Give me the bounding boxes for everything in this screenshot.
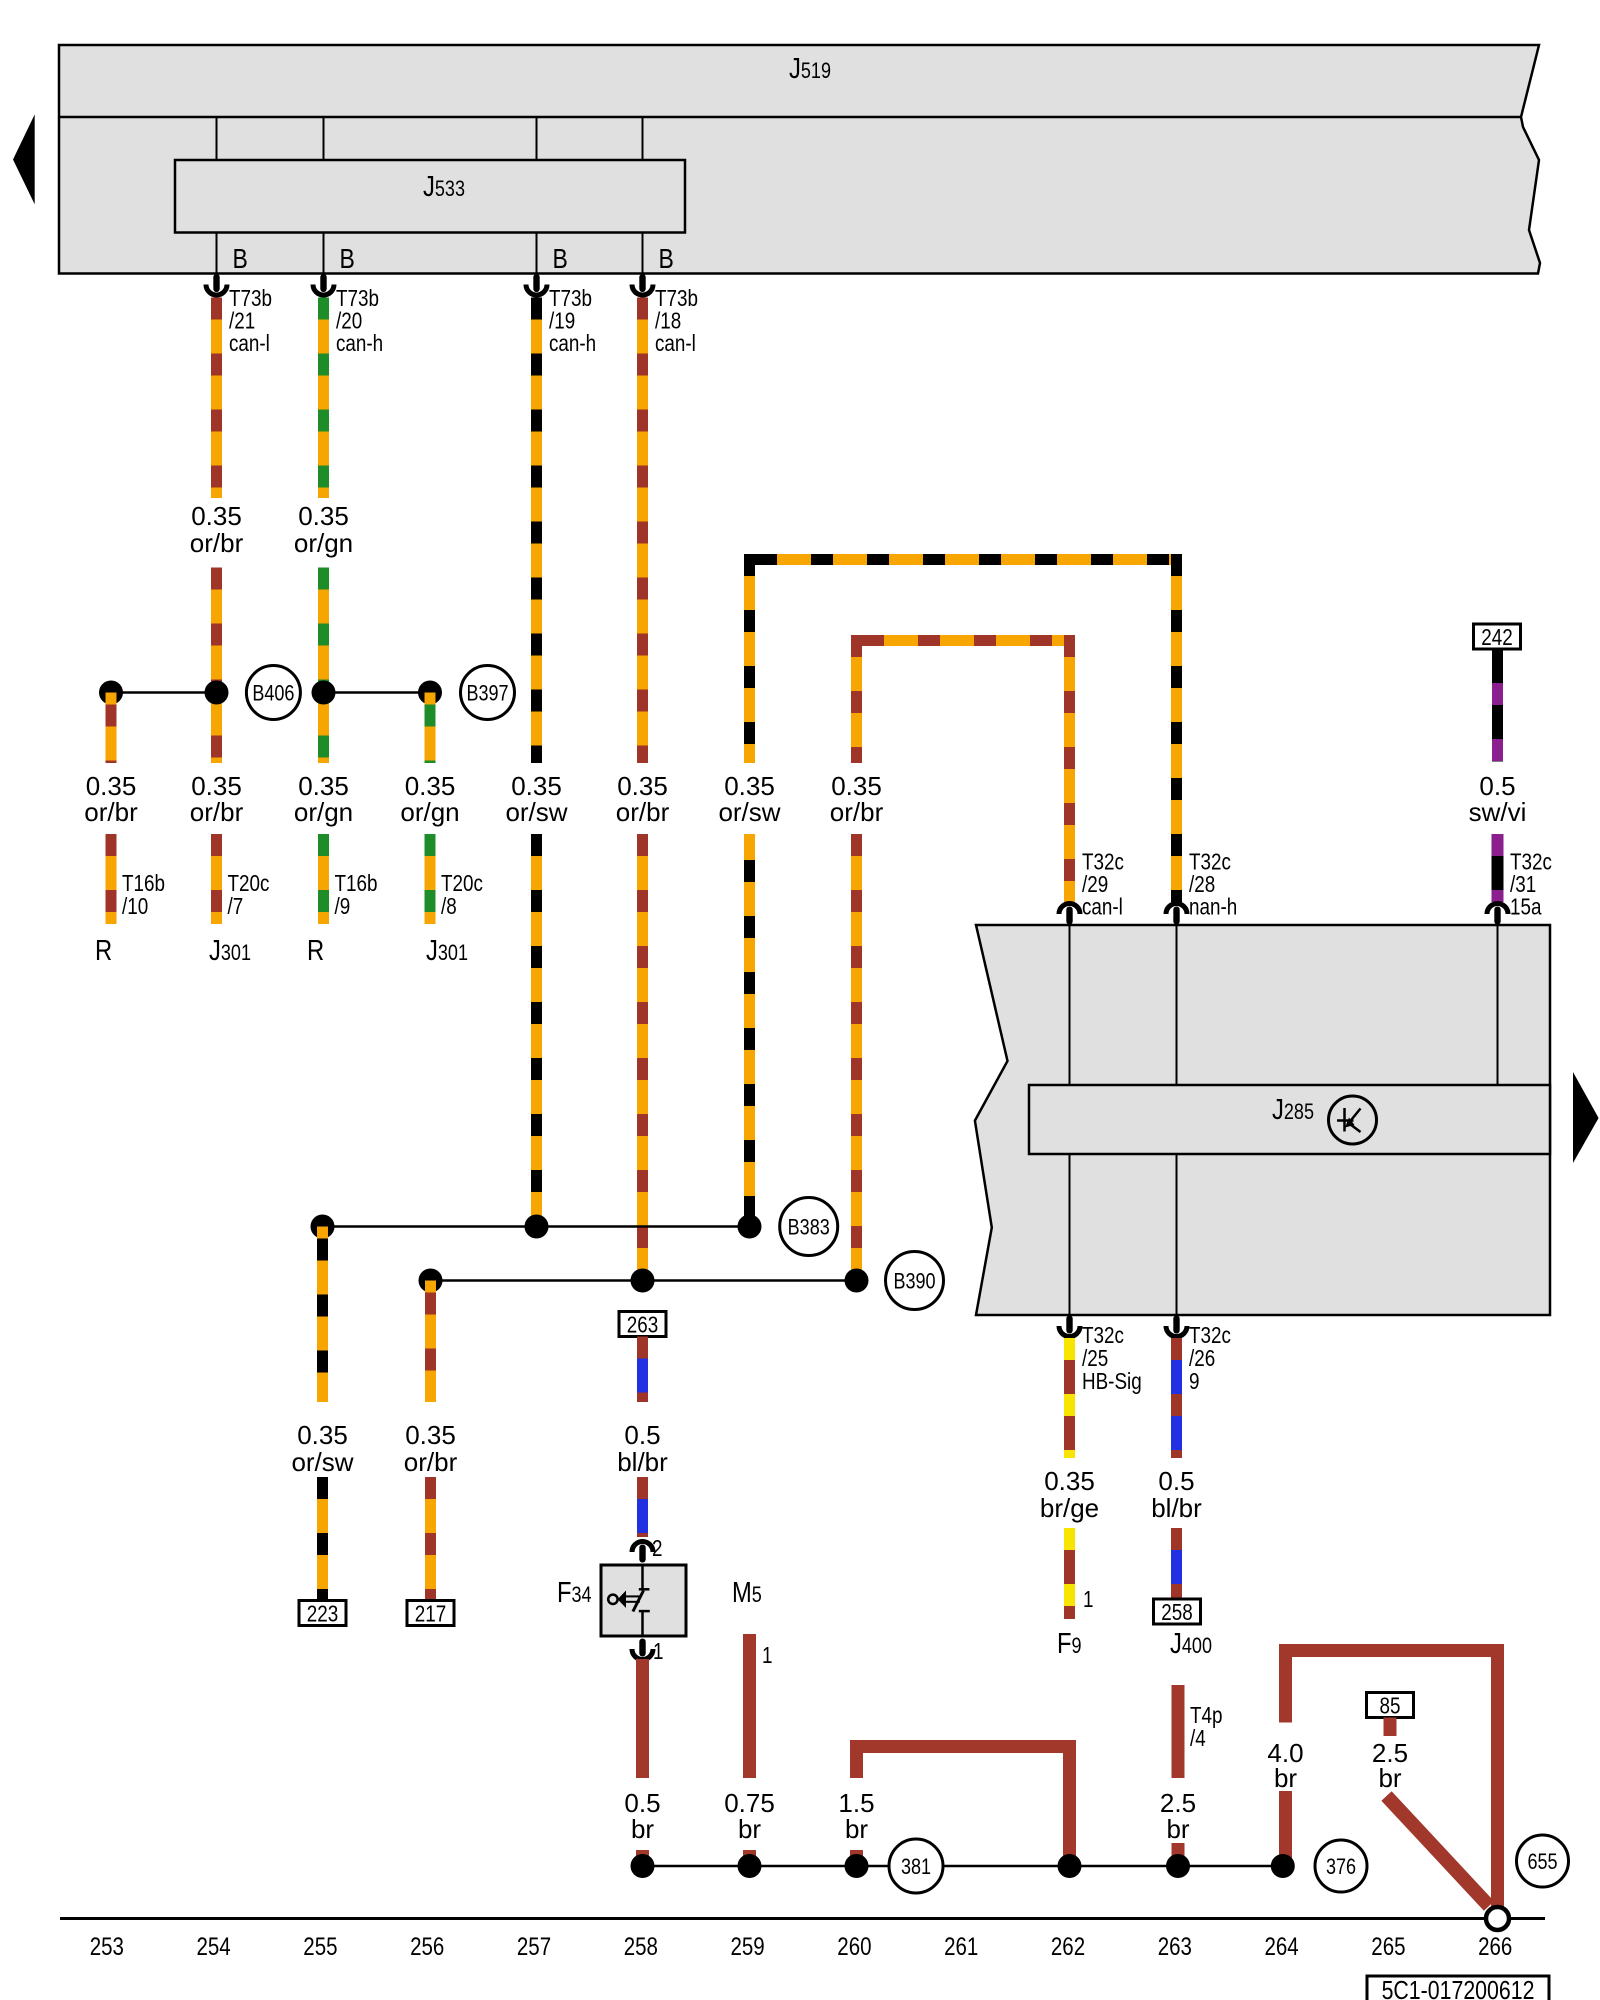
label 0.5 bl/br col263 (1151, 1466, 1202, 1523)
wire or/gn col255 seg3 (318, 834, 329, 924)
svg-text:/31: /31 (1510, 872, 1536, 897)
connector T32c/25 at J285 bottom (1059, 1316, 1080, 1337)
svg-text:1: 1 (1083, 1587, 1093, 1612)
wire or/gn col255 seg2 (318, 568, 329, 764)
svg-text:15a: 15a (1510, 895, 1542, 920)
svg-text:or/br: or/br (830, 797, 884, 827)
svg-text:263: 263 (627, 1313, 658, 1338)
node dot col253 (99, 681, 123, 705)
svg-text:or/br: or/br (84, 797, 138, 827)
wire br 4.0 bend (1279, 1644, 1504, 1908)
svg-text:242: 242 (1481, 625, 1512, 650)
svg-text:br: br (845, 1814, 868, 1844)
svg-text:223: 223 (307, 1602, 338, 1627)
connection circle B397 (461, 666, 515, 720)
terminal box 263 (619, 1312, 666, 1338)
wire or/br col258 seg1 (637, 298, 648, 764)
terminal box 217 (407, 1601, 454, 1627)
ground circle 381 (889, 1839, 943, 1893)
wire or/br stub below B390 (425, 1281, 436, 1403)
wire or/gn col256 seg2 (425, 834, 436, 924)
ground circle 655 (1517, 1835, 1569, 1887)
wire or/sw bend left leg lower (744, 834, 755, 1227)
svg-text:or/sw: or/sw (718, 797, 780, 827)
svg-text:T73b: T73b (549, 286, 592, 311)
svg-text:0.5: 0.5 (1158, 1466, 1194, 1496)
wire or/gn col255 seg1 (318, 298, 329, 499)
wire or/gn stub col256 (425, 693, 436, 764)
svg-text:or/br: or/br (404, 1447, 458, 1477)
svg-text:0.35: 0.35 (1044, 1466, 1095, 1496)
wire bl/br col263 seg1 (1171, 1338, 1182, 1458)
wire br from F34 pin1 (636, 1659, 649, 1778)
connector T73b/21 at J519 (206, 274, 227, 295)
svg-text:T16b: T16b (335, 871, 378, 896)
svg-text:br/ge: br/ge (1040, 1493, 1099, 1523)
F34 switch symbol (608, 1565, 650, 1636)
label J533 (423, 170, 465, 203)
wire bl/br col258 seg2 (637, 1477, 648, 1537)
svg-text:or/gn: or/gn (294, 797, 353, 827)
node dot B383 mid (525, 1215, 549, 1239)
wire inside J285 top col263 (1176, 925, 1178, 1085)
wire br 4.0 left leg lower (1279, 1791, 1292, 1866)
svg-text:655: 655 (1527, 1850, 1557, 1874)
svg-text:br: br (1378, 1763, 1401, 1793)
terminal label T32c/26 9 (1189, 1323, 1231, 1394)
pin label B at x=323.5 (340, 244, 355, 275)
svg-text:/21: /21 (229, 309, 255, 334)
wire inside J519 to J533 pin 2 (323, 117, 325, 274)
wire sw/vi seg1 (1492, 649, 1503, 762)
svg-text:T73b: T73b (229, 286, 272, 311)
ground point 266 circle (1486, 1907, 1509, 1930)
component label J301 (2) (426, 934, 468, 967)
wire or/br col254 seg1 (211, 298, 222, 499)
svg-text:T20c: T20c (441, 871, 483, 896)
wire bl/br col263 seg2 (1171, 1528, 1182, 1599)
svg-text:/8: /8 (441, 894, 457, 919)
pin number 2 at F34 (652, 1536, 662, 1561)
left continuation arrow (13, 114, 35, 204)
svg-text:/9: /9 (335, 894, 351, 919)
terminal label T20c/8 (441, 871, 483, 919)
svg-text:T73b: T73b (336, 286, 379, 311)
terminal box 258 (1154, 1599, 1201, 1625)
current track numbers row (90, 1932, 1513, 1960)
terminal box 85 (1367, 1693, 1414, 1719)
ground node dot col260 (845, 1854, 869, 1878)
svg-text:T32c: T32c (1189, 1323, 1231, 1348)
component label F9 (1057, 1627, 1082, 1660)
svg-text:/28: /28 (1189, 872, 1215, 897)
wire br/ge col262 seg1 (1064, 1338, 1075, 1458)
node dot B383 right (738, 1215, 762, 1239)
svg-text:can-h: can-h (549, 331, 596, 356)
svg-text:1: 1 (653, 1639, 663, 1664)
svg-text:B: B (233, 244, 248, 275)
gateway J533 box (175, 160, 685, 233)
connector T32c/31 at J285 top (1487, 904, 1508, 925)
terminal label T32c/31 15a (1510, 850, 1552, 920)
control unit J285 band (instrument cluster) (975, 925, 1550, 1315)
wire inside J519 to J533 pin 1 (216, 117, 218, 274)
svg-text:T32c: T32c (1189, 850, 1231, 875)
wire br from M5 (743, 1634, 756, 1778)
svg-text:261: 261 (944, 1932, 978, 1960)
connector T32c/28 at J285 top (1166, 904, 1187, 925)
svg-text:265: 265 (1371, 1932, 1405, 1960)
svg-text:T16b: T16b (122, 871, 165, 896)
svg-text:can-l: can-l (1082, 895, 1123, 920)
svg-text:can-l: can-l (229, 331, 270, 356)
terminal label T73b/18 can-l (655, 286, 698, 356)
ground bus line (643, 1865, 1283, 1868)
wire or/br col258 seg2 (637, 834, 648, 1281)
wire sw/vi seg2 (1492, 834, 1504, 902)
svg-text:/18: /18 (655, 309, 681, 334)
terminal label T32c/25 HB-Sig (1082, 1323, 1142, 1394)
wire br stub below 85 (1384, 1718, 1397, 1737)
svg-text:T20c: T20c (228, 871, 270, 896)
label 2.5 br col263 (1160, 1788, 1196, 1844)
label 0.35 or/sw col259 (718, 771, 780, 827)
label 4.0 br (1267, 1738, 1303, 1793)
svg-text:217: 217 (415, 1602, 446, 1627)
wire br F34 stub to ground (636, 1850, 649, 1866)
label 2.5 br col265 (1372, 1738, 1408, 1793)
svg-text:259: 259 (730, 1932, 764, 1960)
ground node dot col263 (1166, 1854, 1190, 1878)
svg-text:264: 264 (1264, 1932, 1298, 1960)
label 0.35 or/br col253 (84, 771, 138, 827)
svg-text:B406: B406 (252, 682, 294, 706)
svg-text:381: 381 (901, 1855, 931, 1879)
wire or/sw stub below B383 (317, 1227, 328, 1403)
terminal label T4p/4 (1190, 1703, 1222, 1751)
wire or/br col254 seg3 (211, 834, 222, 924)
junction line B406 (111, 691, 217, 694)
label 0.35 or/br col260 (830, 771, 884, 827)
terminal label T32c/28 can-h (1189, 850, 1237, 920)
label 0.5 br (624, 1788, 660, 1844)
svg-text:or/sw: or/sw (291, 1447, 353, 1477)
svg-text:br: br (738, 1814, 761, 1844)
svg-text:254: 254 (196, 1932, 230, 1960)
pin label B at x=536.5 (553, 244, 568, 275)
pin number 1 at F34 (653, 1639, 663, 1664)
svg-text:1: 1 (762, 1643, 772, 1668)
svg-text:0.5: 0.5 (624, 1420, 660, 1450)
terminal label T73b/19 can-h (549, 286, 596, 356)
svg-text:T32c: T32c (1082, 1323, 1124, 1348)
svg-text:or/br: or/br (190, 797, 244, 827)
svg-text:B: B (659, 244, 674, 275)
wire br 1.5 bend (850, 1740, 1076, 1866)
label 0.35 or/br lower (404, 1420, 458, 1477)
wire inside J285 top col262 (1069, 925, 1071, 1085)
label 0.35 or/gn col255 top (294, 501, 353, 558)
svg-text:bl/br: bl/br (617, 1447, 668, 1477)
junction line B397 (324, 691, 431, 694)
component label J301 (1) (209, 934, 251, 967)
component label J400 (1170, 1627, 1212, 1660)
node dot col255 (312, 681, 336, 705)
label 0.35 or/br col254 (190, 771, 244, 827)
wire bl/br col258 seg1 (637, 1337, 648, 1403)
svg-text:or/gn: or/gn (294, 528, 353, 558)
label 0.35 or/sw lower (291, 1420, 353, 1477)
svg-text:253: 253 (90, 1932, 124, 1960)
svg-text:B390: B390 (893, 1270, 935, 1294)
node dot B390 right (845, 1269, 869, 1293)
ground circle 376 (1315, 1840, 1367, 1892)
svg-text:or/sw: or/sw (505, 797, 567, 827)
label 0.35 or/br col258 (616, 771, 670, 827)
svg-text:/25: /25 (1082, 1346, 1108, 1371)
wire or/sw bend left leg upper (744, 554, 755, 763)
wire or/br stub col253 (106, 693, 117, 764)
svg-text:R: R (307, 934, 324, 967)
terminal label T16b/10 (122, 871, 165, 919)
svg-text:0.35: 0.35 (191, 501, 242, 531)
component label M5 (732, 1576, 762, 1609)
ground node dot col264 (1271, 1854, 1295, 1878)
wire or/br bend left leg upper (851, 635, 862, 763)
svg-text:255: 255 (303, 1932, 337, 1960)
wire inside J519 to J533 pin 4 (642, 117, 644, 274)
terminal label T73b/20 can-h (336, 286, 383, 356)
label J519 (789, 52, 831, 85)
wire inside J285 bottom col263 (1176, 1154, 1178, 1315)
svg-text:260: 260 (837, 1932, 871, 1960)
control unit J519 band (onboard supply control unit) (59, 45, 1540, 274)
svg-text:/4: /4 (1190, 1726, 1206, 1751)
brake light switch F34 box (601, 1565, 686, 1636)
svg-text:B397: B397 (466, 682, 508, 706)
connection circle B383 (780, 1198, 838, 1256)
label 0.35 or/gn col256 (400, 771, 459, 827)
wire or/br bend left leg lower (851, 834, 862, 1281)
svg-text:257: 257 (517, 1932, 551, 1960)
label 0.5 sw/vi (1469, 771, 1527, 827)
wire inside J285 bottom col262 (1069, 1154, 1071, 1315)
wire br M5 stub to ground (743, 1850, 756, 1866)
wire br T4p/4 (1172, 1685, 1185, 1778)
svg-text:br: br (1166, 1814, 1189, 1844)
connector T73b/19 at J519 (526, 274, 547, 295)
node dot col254 (205, 681, 229, 705)
label J285 (1272, 1093, 1314, 1126)
svg-text:B383: B383 (788, 1216, 830, 1240)
terminal box 223 (299, 1601, 346, 1627)
ground node dot col258 (631, 1854, 655, 1878)
connector T73b/20 at J519 (313, 274, 334, 295)
svg-text:can-h: can-h (336, 331, 383, 356)
wire or/br col253 seg2 (106, 834, 117, 924)
svg-text:br: br (631, 1814, 654, 1844)
svg-text:br: br (1274, 1763, 1297, 1793)
svg-text:T4p: T4p (1190, 1703, 1222, 1728)
node dot B390 mid (631, 1269, 655, 1293)
connector T32c/29 at J285 top (1059, 904, 1080, 925)
label 0.5 bl/br col258 (617, 1420, 668, 1477)
svg-text:HB-Sig: HB-Sig (1082, 1369, 1142, 1394)
svg-text:or/gn: or/gn (400, 797, 459, 827)
svg-text:/26: /26 (1189, 1346, 1215, 1371)
svg-text:B: B (553, 244, 568, 275)
node dot B390 left (419, 1269, 443, 1293)
wire br T4p stub to ground (1172, 1843, 1185, 1866)
pin label B at x=642.5 (659, 244, 674, 275)
wire br diagonal to ground point (1387, 1796, 1490, 1906)
svg-text:bl/br: bl/br (1151, 1493, 1202, 1523)
svg-text:266: 266 (1478, 1932, 1512, 1960)
connection circle B406 (246, 666, 300, 720)
connector T32c/26 at J285 bottom (1166, 1316, 1187, 1337)
component label R (2) (307, 934, 324, 967)
svg-text:258: 258 (624, 1932, 658, 1960)
svg-text:/10: /10 (122, 894, 148, 919)
wire br 1.5 stub to ground (850, 1850, 863, 1866)
label 0.35 br/ge (1040, 1466, 1099, 1523)
svg-text:T73b: T73b (655, 286, 698, 311)
svg-text:or/br: or/br (616, 797, 670, 827)
junction line B383 (323, 1225, 751, 1228)
svg-text:nan-h: nan-h (1189, 895, 1237, 920)
svg-text:or/br: or/br (190, 528, 244, 558)
label 0.35 or/sw col257 (505, 771, 567, 827)
svg-text:B: B (340, 244, 355, 275)
pin number 1 at F9 (1083, 1587, 1093, 1612)
right continuation arrow (1573, 1072, 1599, 1163)
wire inside J285 top col266 (1497, 925, 1499, 1085)
svg-text:/7: /7 (228, 894, 244, 919)
svg-text:sw/vi: sw/vi (1469, 797, 1527, 827)
junction line B390 (431, 1279, 857, 1282)
node dot B383 left (311, 1215, 335, 1239)
svg-text:9: 9 (1189, 1369, 1199, 1394)
wire or/sw stub seg2 (317, 1477, 328, 1600)
svg-text:/29: /29 (1082, 872, 1108, 897)
svg-text:/20: /20 (336, 309, 362, 334)
pin number 1 at M5 (762, 1643, 772, 1668)
svg-text:258: 258 (1161, 1600, 1192, 1625)
terminal label T16b/9 (335, 871, 378, 919)
terminal label T20c/7 (228, 871, 270, 919)
pin label B at x=216.5 (233, 244, 248, 275)
svg-text:0.35: 0.35 (297, 1420, 348, 1450)
label F34 (557, 1576, 592, 1609)
svg-text:376: 376 (1326, 1855, 1356, 1879)
svg-text:0.35: 0.35 (298, 501, 349, 531)
svg-text:2: 2 (652, 1536, 662, 1561)
terminal label T73b/21 can-l (229, 286, 272, 356)
connection circle B390 (886, 1252, 944, 1310)
svg-text:256: 256 (410, 1932, 444, 1960)
wire or/sw bend right leg (1171, 554, 1182, 902)
svg-text:263: 263 (1158, 1932, 1192, 1960)
terminal box 242 (1474, 624, 1521, 650)
svg-text:R: R (95, 934, 112, 967)
ground node dot col262 (1058, 1854, 1082, 1878)
wire or/sw col257 seg1 (531, 298, 542, 764)
connector T73b/18 at J519 (632, 274, 653, 295)
ground node dot col259 (738, 1854, 762, 1878)
wire or/sw col257 seg2 (531, 834, 542, 1227)
wire inside J519 to J533 pin 3 (536, 117, 538, 274)
component label R (radio) (95, 934, 112, 967)
svg-text:262: 262 (1051, 1932, 1085, 1960)
node dot col256 (418, 681, 442, 705)
svg-text:0.35: 0.35 (405, 1420, 456, 1450)
wire br/ge col262 seg2 (1064, 1528, 1075, 1619)
svg-text:T32c: T32c (1082, 850, 1124, 875)
svg-text:T32c: T32c (1510, 850, 1552, 875)
svg-text:can-l: can-l (655, 331, 696, 356)
bottom reference line (60, 1917, 1545, 1920)
svg-text:5C1-017200612: 5C1-017200612 (1382, 1976, 1535, 2000)
wire or/br bend top bar (862, 635, 1064, 646)
instrument cluster symbol (1329, 1096, 1377, 1144)
J285 inner box (1029, 1085, 1550, 1154)
wire or/br col254 seg2 (211, 568, 222, 764)
label 1.5 br (838, 1788, 874, 1844)
label 0.35 or/br col254 top (190, 501, 244, 558)
wire or/br stub seg2 (425, 1477, 436, 1600)
connector pin 1 at F34 (632, 1639, 653, 1660)
label 0.75 br (724, 1788, 775, 1844)
wire or/br bend right leg (1064, 635, 1075, 902)
connector pin 2 at F34 (632, 1542, 653, 1563)
terminal label T32c/29 can-l (1082, 850, 1124, 920)
wire or/sw bend top bar (755, 554, 1171, 565)
label 0.35 or/gn col255 (294, 771, 353, 827)
svg-text:85: 85 (1380, 1694, 1401, 1719)
svg-text:/19: /19 (549, 309, 575, 334)
diagram code box (1367, 1976, 1549, 2000)
